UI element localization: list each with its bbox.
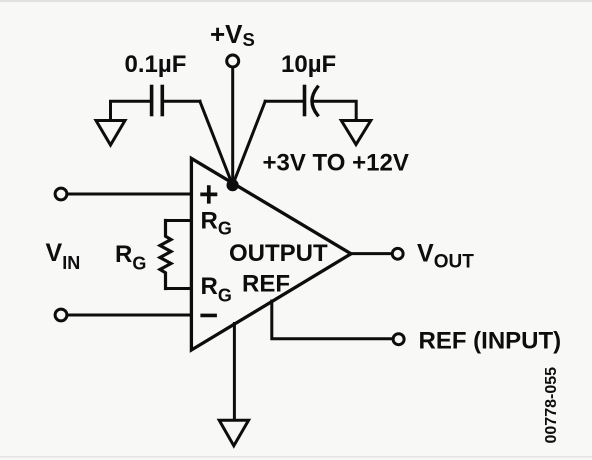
svg-text:00778-055: 00778-055 (543, 367, 560, 444)
svg-text:10µF: 10µF (281, 51, 336, 78)
svg-text:+3V TO +12V: +3V TO +12V (263, 150, 409, 177)
wire +VS supply (231, 67, 234, 185)
ground C2 (341, 121, 371, 145)
op-amp U1 (191, 158, 351, 350)
wire C1 left lead (111, 101, 152, 120)
node supply junction (227, 179, 239, 191)
capacitor C2 10uF (303, 87, 307, 115)
wire RG bottom stub (166, 287, 192, 290)
wire +IN input (68, 193, 192, 196)
ground C1 (96, 121, 125, 146)
plus symbol (200, 185, 217, 203)
wire C2 to node (233, 101, 266, 185)
svg-text:0.1µF: 0.1µF (125, 51, 187, 78)
wire REF (272, 301, 392, 339)
wire C2 right lead (313, 101, 356, 120)
terminal VOUT (392, 248, 403, 259)
wire output (351, 252, 392, 255)
terminal +IN (55, 188, 67, 200)
wire -IN input (68, 314, 192, 317)
wire C2 left lead (265, 100, 304, 103)
capacitor C1 0.1uF (150, 87, 154, 115)
svg-text:OUTPUT: OUTPUT (229, 240, 328, 267)
svg-text:REF: REF (242, 271, 290, 298)
terminal +VS (227, 55, 239, 67)
wire opamp ground pin (233, 324, 236, 421)
resistor RG (160, 221, 171, 289)
svg-text:REF (INPUT): REF (INPUT) (419, 327, 562, 354)
terminal REF (393, 334, 404, 345)
minus symbol (200, 314, 217, 318)
terminal -IN (55, 309, 67, 321)
wire C1 right lead (162, 100, 200, 103)
wire RG top stub (166, 219, 192, 222)
wire C1 to node (200, 101, 233, 185)
ground U1 (219, 420, 248, 446)
